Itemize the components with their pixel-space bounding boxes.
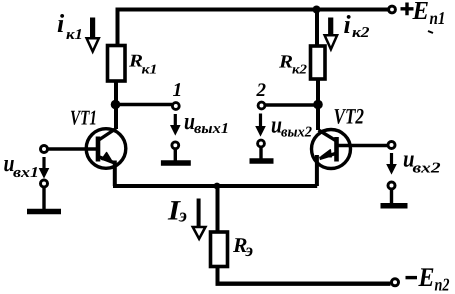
svg-text:i: i bbox=[344, 10, 352, 39]
wire RK1 to collector node bbox=[114, 81, 118, 129]
svg-text:i: i bbox=[57, 9, 65, 38]
terminal lower u_vx2 bbox=[388, 182, 395, 189]
current arrow iK1 bbox=[90, 18, 95, 39]
svg-text:1: 1 bbox=[173, 80, 183, 101]
wire junction to terminal 1 bbox=[116, 103, 172, 107]
node junction collector VT2 / output 2 bbox=[313, 100, 323, 110]
ground input 1 bbox=[42, 188, 45, 210]
stray mark bbox=[428, 31, 433, 33]
svg-text:VT1: VT1 bbox=[70, 106, 97, 130]
svg-text:вых1: вых1 bbox=[194, 121, 229, 137]
voltage arrow u_vx1 bbox=[42, 157, 45, 170]
terminal lower u_vx1 bbox=[41, 180, 48, 187]
svg-text:к1: к1 bbox=[142, 62, 158, 77]
wire top rail +Ep1 bbox=[118, 10, 389, 47]
wire base VT2 bbox=[339, 144, 388, 148]
svg-text:вых2: вых2 bbox=[281, 125, 312, 141]
wire VT2 emitter down to rail bbox=[315, 155, 319, 186]
wire top to RK2 bbox=[315, 10, 319, 47]
resistor RK1 bbox=[108, 46, 126, 82]
svg-text:E: E bbox=[412, 0, 429, 25]
svg-text:к2: к2 bbox=[292, 62, 307, 77]
svg-text:э: э bbox=[245, 240, 253, 260]
wire to RE bbox=[216, 186, 220, 232]
terminal -Ep2 bbox=[392, 279, 399, 286]
voltage arrow u_vyx1 bbox=[174, 114, 177, 127]
voltage arrow u_vyx2 bbox=[259, 114, 262, 129]
wire bottom rail -Ep2 bbox=[216, 282, 391, 286]
ground output 2 bbox=[259, 147, 262, 159]
terminal u_vx1 bbox=[41, 146, 48, 153]
label +Ep1 bbox=[401, 3, 414, 16]
ground input 2 bbox=[390, 190, 393, 204]
terminal u_vx2 bbox=[388, 142, 395, 149]
terminal 1 bbox=[172, 103, 179, 110]
svg-text:э: э bbox=[178, 206, 187, 227]
terminal +Ep1 bbox=[389, 6, 396, 13]
node junction collector VT1 / output 1 bbox=[111, 100, 121, 110]
wire junction to terminal 2 bbox=[265, 103, 318, 107]
wire RE to bottom rail bbox=[216, 266, 220, 284]
svg-text:к2: к2 bbox=[352, 25, 370, 41]
transistor VT2 bbox=[312, 130, 351, 169]
svg-text:вх1: вх1 bbox=[13, 165, 39, 181]
terminal lower 1 bbox=[172, 142, 179, 149]
svg-text:вх2: вх2 bbox=[413, 161, 442, 177]
svg-text:E: E bbox=[418, 262, 435, 292]
terminal 2 bbox=[258, 102, 265, 109]
node junction top rail to RK2 bbox=[313, 6, 321, 14]
wire base VT1 bbox=[48, 147, 96, 151]
wire VT1 emitter down bbox=[113, 161, 117, 187]
voltage arrow u_vx2 bbox=[390, 153, 393, 166]
terminal lower 2 bbox=[258, 140, 265, 147]
resistor RE bbox=[211, 232, 228, 267]
current arrow IE bbox=[197, 199, 201, 229]
svg-text:к1: к1 bbox=[66, 27, 83, 43]
svg-text:п1: п1 bbox=[430, 8, 446, 28]
svg-text:R: R bbox=[278, 53, 293, 73]
svg-text:п2: п2 bbox=[435, 275, 450, 294]
svg-text:2: 2 bbox=[256, 80, 267, 101]
ground output 1 bbox=[174, 149, 177, 161]
node junction emitter rail / RE bbox=[214, 183, 221, 190]
svg-text:VT2: VT2 bbox=[334, 104, 365, 129]
wire emitter rail bbox=[113, 184, 317, 188]
transistor VT1 bbox=[86, 129, 126, 169]
resistor RK2 bbox=[311, 46, 326, 79]
current arrow iK2 bbox=[328, 18, 333, 36]
wire RK2 to collector node bbox=[316, 79, 320, 130]
label -Ep2 bbox=[406, 276, 418, 279]
